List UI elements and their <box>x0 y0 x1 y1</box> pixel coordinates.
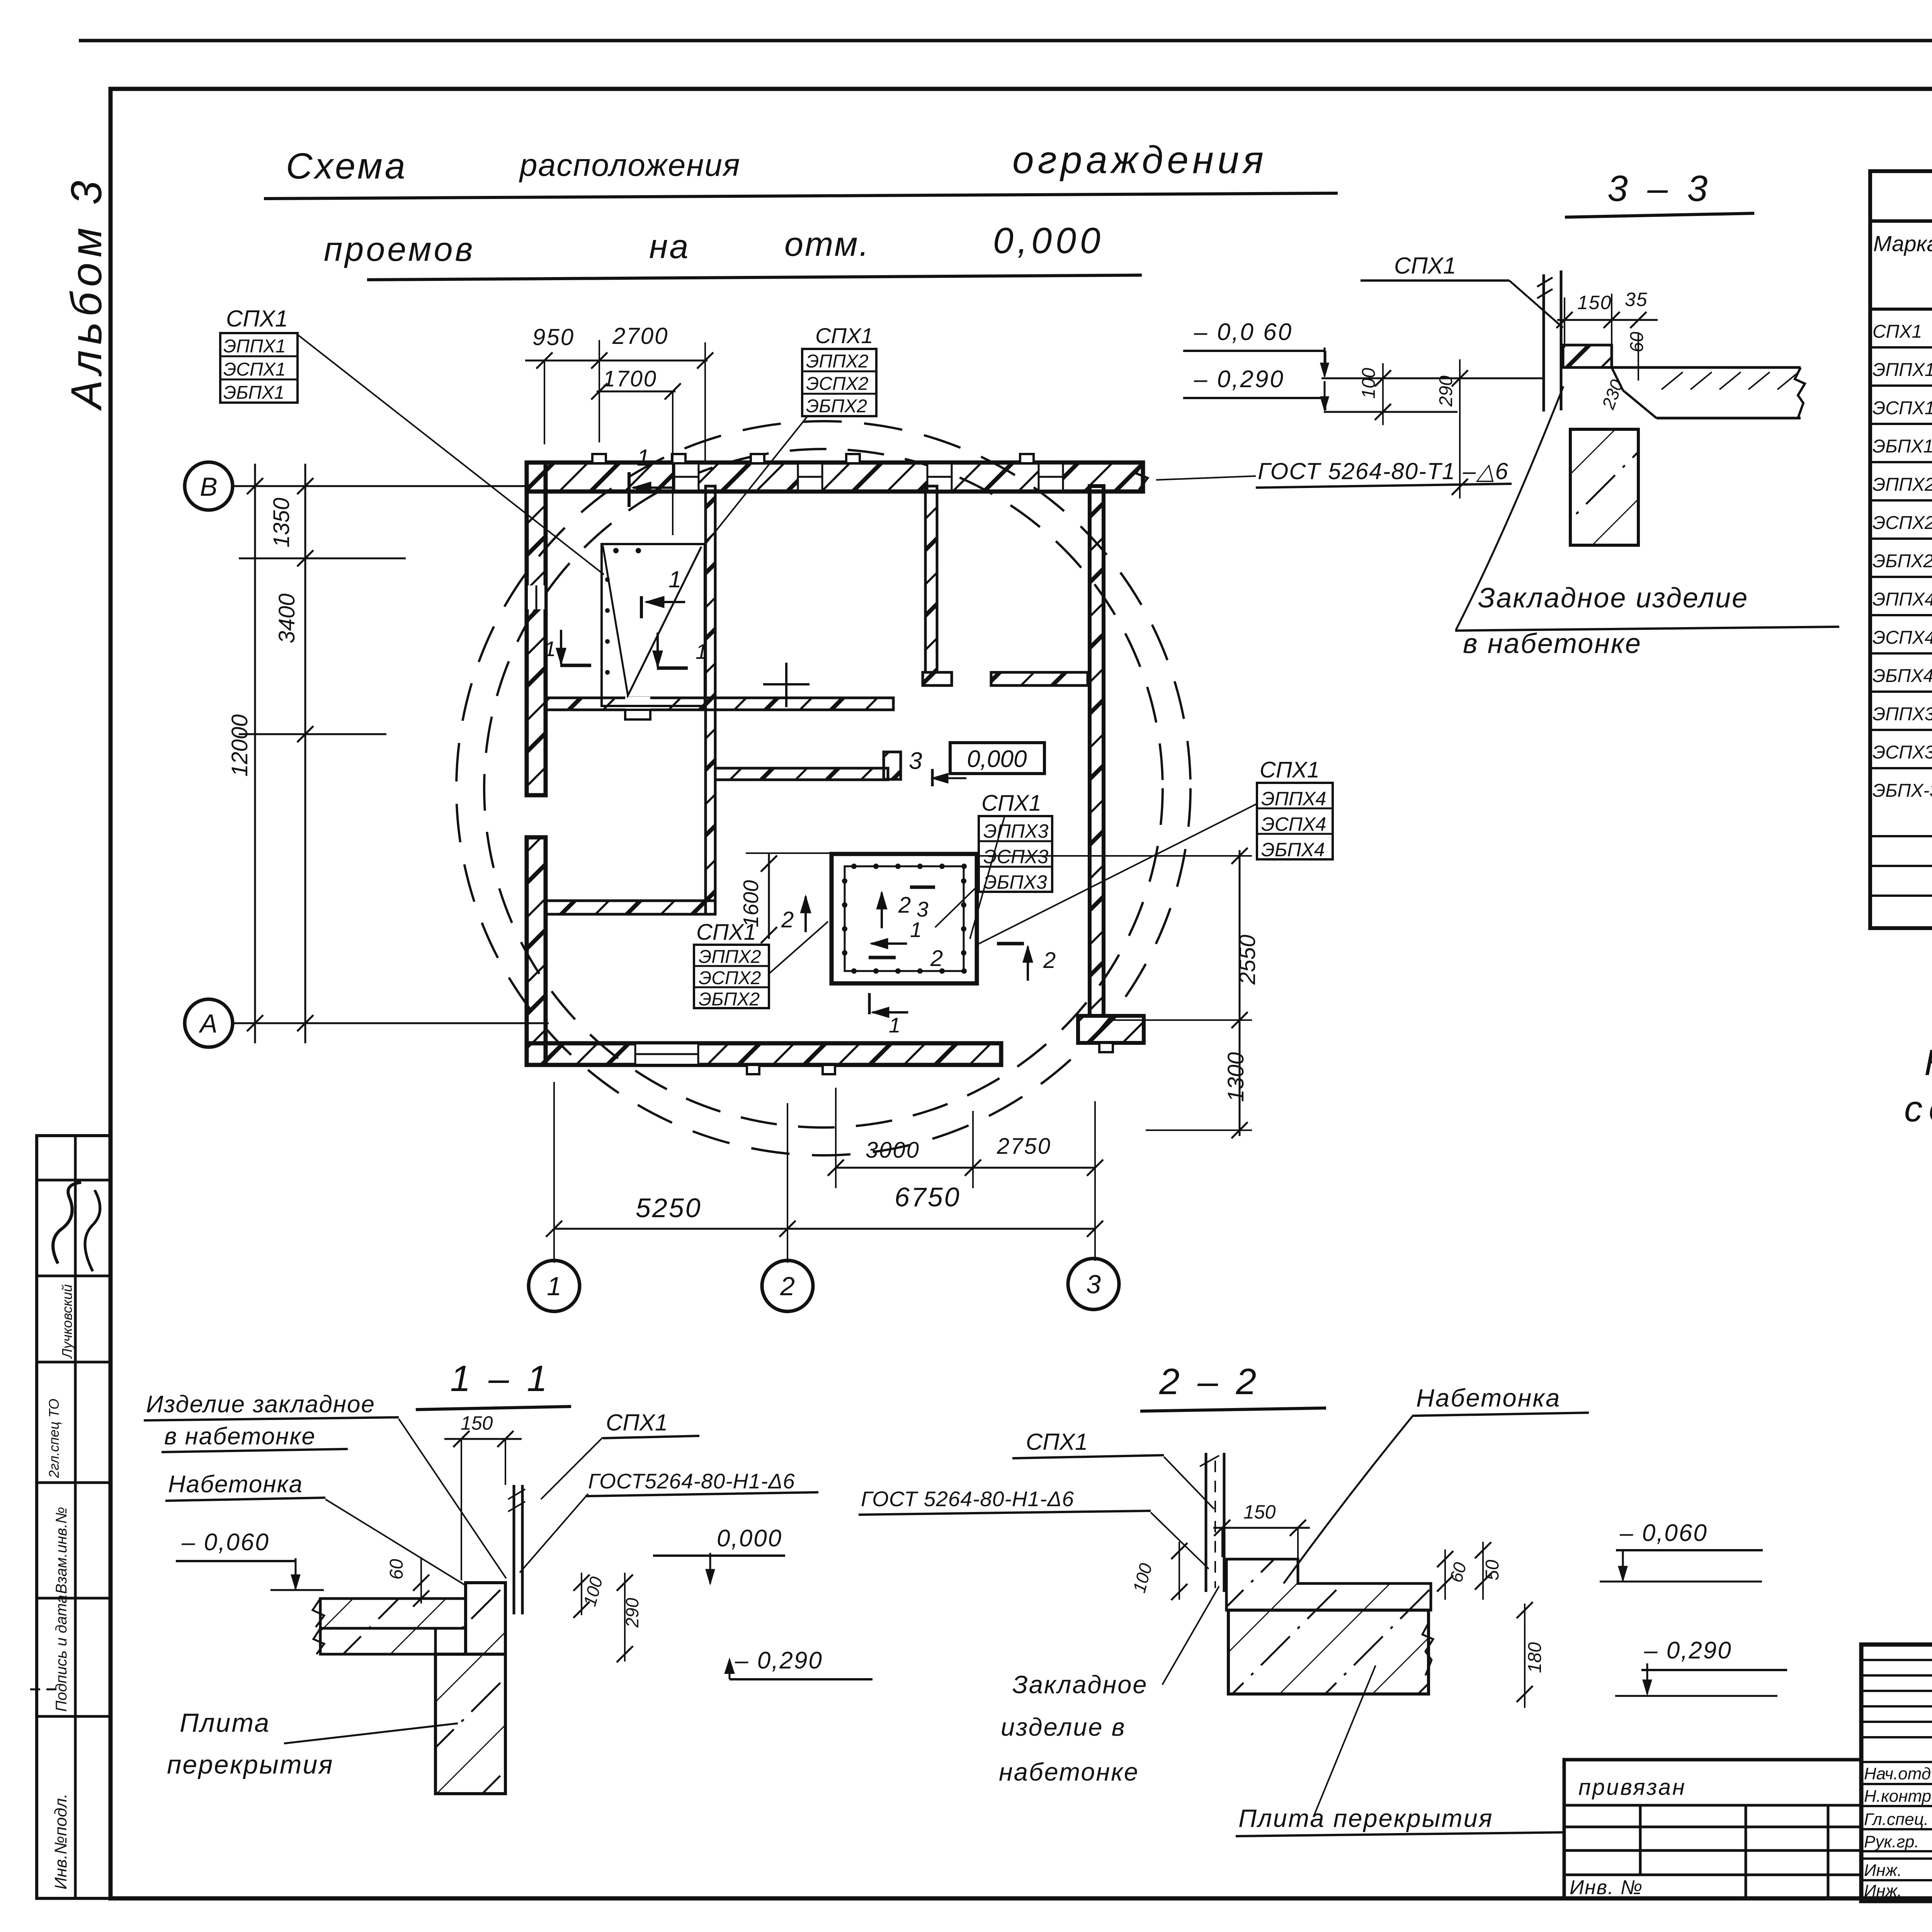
svg-text:– 0,290: – 0,290 <box>735 1647 823 1674</box>
svg-text:1: 1 <box>696 639 707 663</box>
svg-text:3400: 3400 <box>274 594 299 643</box>
svg-text:ЭСПХ1: ЭСПХ1 <box>223 359 286 380</box>
svg-text:ГОСТ5264-80-Н1-Δ6: ГОСТ5264-80-Н1-Δ6 <box>588 1469 795 1493</box>
svg-text:6750: 6750 <box>895 1182 961 1212</box>
svg-text:ЭБПХ3: ЭБПХ3 <box>983 871 1047 893</box>
svg-text:ЭППХ3: ЭППХ3 <box>983 820 1049 842</box>
svg-text:ГОСТ 5264-80-Т1 –△6: ГОСТ 5264-80-Т1 –△6 <box>1258 458 1509 484</box>
svg-text:3 – 3: 3 – 3 <box>1607 168 1712 209</box>
svg-text:Лучковский: Лучковский <box>59 1284 75 1359</box>
svg-text:на: на <box>649 227 690 265</box>
svg-text:2550: 2550 <box>1235 935 1260 985</box>
svg-text:СПХ1: СПХ1 <box>226 306 288 332</box>
svg-text:Изделие закладное: Изделие закладное <box>146 1391 375 1418</box>
svg-text:1: 1 <box>910 918 922 942</box>
svg-text:2700: 2700 <box>612 323 668 349</box>
svg-text:1: 1 <box>889 1013 901 1037</box>
svg-text:290: 290 <box>1436 376 1456 407</box>
svg-text:ЭППХ2: ЭППХ2 <box>1872 474 1932 495</box>
svg-text:совместно: совместно <box>1904 1088 1932 1129</box>
svg-text:ЭСПХ2: ЭСПХ2 <box>806 374 868 394</box>
svg-text:1600: 1600 <box>739 880 763 927</box>
svg-text:– 0,0 60: – 0,0 60 <box>1194 319 1293 345</box>
svg-text:1: 1 <box>637 445 650 471</box>
svg-text:– 0,290: – 0,290 <box>1194 366 1285 393</box>
svg-text:950: 950 <box>532 324 575 350</box>
svg-text:1: 1 <box>547 1272 561 1301</box>
svg-text:ЭБПХ4: ЭБПХ4 <box>1872 666 1932 686</box>
svg-text:2: 2 <box>780 1272 795 1301</box>
svg-text:150: 150 <box>1577 292 1612 313</box>
svg-text:ЭБПХ-3: ЭБПХ-3 <box>1872 781 1932 801</box>
svg-text:ГОСТ 5264-80-Н1-Δ6: ГОСТ 5264-80-Н1-Δ6 <box>861 1487 1074 1511</box>
svg-text:Закладное: Закладное <box>1012 1670 1148 1699</box>
svg-text:12000: 12000 <box>227 714 252 777</box>
svg-text:3: 3 <box>909 748 922 774</box>
svg-text:ЭППХ2: ЭППХ2 <box>806 351 869 372</box>
svg-text:2 – 2: 2 – 2 <box>1159 1361 1260 1402</box>
svg-text:150: 150 <box>1243 1501 1276 1523</box>
svg-text:СПХ1: СПХ1 <box>1260 757 1320 782</box>
svg-text:1 – 1: 1 – 1 <box>450 1358 551 1399</box>
svg-text:100: 100 <box>1359 368 1379 399</box>
svg-text:Плита перекрытия: Плита перекрытия <box>1238 1804 1493 1832</box>
svg-text:проемов: проемов <box>324 230 475 268</box>
svg-text:ЭСПХ1: ЭСПХ1 <box>1872 398 1932 418</box>
svg-text:180: 180 <box>1525 1642 1545 1673</box>
svg-text:2: 2 <box>930 946 943 971</box>
svg-text:3: 3 <box>1086 1270 1101 1299</box>
svg-text:СПХ1: СПХ1 <box>1394 253 1456 279</box>
svg-text:Подпись и дата: Подпись и дата <box>53 1595 70 1712</box>
svg-text:2: 2 <box>1043 948 1056 973</box>
svg-text:ЭБПХ2: ЭБПХ2 <box>1872 551 1932 571</box>
svg-text:1300: 1300 <box>1223 1052 1248 1102</box>
svg-text:5250: 5250 <box>636 1193 702 1223</box>
svg-text:Набетонка: Набетонка <box>1416 1384 1561 1412</box>
svg-text:Плита: Плита <box>180 1708 270 1738</box>
svg-text:Инж.: Инж. <box>1864 1881 1902 1900</box>
svg-text:Набетонка: Набетонка <box>168 1471 303 1498</box>
svg-text:ЭППХ4: ЭППХ4 <box>1872 589 1932 610</box>
svg-text:– 0,060: – 0,060 <box>1619 1520 1708 1546</box>
svg-text:СПХ1: СПХ1 <box>981 791 1041 816</box>
svg-text:1350: 1350 <box>269 498 294 548</box>
svg-text:Нач.отд: Нач.отд <box>1864 1764 1931 1783</box>
svg-text:ЭСПХ4: ЭСПХ4 <box>1261 813 1326 835</box>
svg-text:А: А <box>198 1009 217 1038</box>
svg-text:2: 2 <box>781 907 794 932</box>
svg-text:60: 60 <box>1627 332 1647 352</box>
svg-text:3000: 3000 <box>866 1138 920 1163</box>
svg-text:1700: 1700 <box>603 366 657 391</box>
svg-text:Инв.№подл.: Инв.№подл. <box>51 1793 70 1889</box>
svg-text:в набетонке: в набетонке <box>164 1423 316 1450</box>
svg-text:ЭППХ4: ЭППХ4 <box>1261 788 1326 810</box>
svg-text:Гл.спец.: Гл.спец. <box>1864 1810 1929 1829</box>
svg-text:2гл.спец ТО: 2гл.спец ТО <box>46 1399 62 1478</box>
svg-text:Рук.гр.: Рук.гр. <box>1864 1832 1919 1851</box>
svg-text:– 0,060: – 0,060 <box>181 1529 270 1556</box>
svg-text:привязан: привязан <box>1578 1775 1686 1800</box>
svg-text:перекрытия: перекрытия <box>167 1750 334 1779</box>
svg-text:ЭППХ2: ЭППХ2 <box>699 947 761 967</box>
svg-text:Альбом 3: Альбом 3 <box>62 175 111 411</box>
svg-text:0,000: 0,000 <box>993 220 1104 261</box>
svg-text:Схема: Схема <box>286 146 408 187</box>
svg-text:2750: 2750 <box>997 1134 1051 1159</box>
svg-text:0,000: 0,000 <box>967 746 1027 772</box>
svg-text:2: 2 <box>898 893 911 918</box>
svg-text:СПХ1: СПХ1 <box>815 323 873 348</box>
svg-text:35: 35 <box>1625 289 1648 310</box>
svg-text:ЭБПХ2: ЭБПХ2 <box>806 396 867 417</box>
svg-text:ЭБПХ2: ЭБПХ2 <box>699 989 760 1010</box>
svg-text:расположения: расположения <box>519 148 741 183</box>
svg-text:в набетонке: в набетонке <box>1463 628 1642 659</box>
svg-text:60: 60 <box>386 1559 407 1580</box>
svg-text:Инв. №: Инв. № <box>1570 1876 1643 1899</box>
svg-text:Закладное изделие: Закладное изделие <box>1478 583 1748 614</box>
svg-text:Настоящий: Настоящий <box>1924 1042 1932 1083</box>
svg-text:0,000: 0,000 <box>717 1525 782 1552</box>
svg-text:ЭППХ1: ЭППХ1 <box>1872 360 1932 380</box>
svg-text:СПХ1: СПХ1 <box>1026 1429 1088 1455</box>
svg-text:СПХ1: СПХ1 <box>606 1410 668 1435</box>
svg-text:ограждения: ограждения <box>1012 138 1267 182</box>
svg-text:Инж.: Инж. <box>1864 1861 1902 1880</box>
svg-text:ЭСПХ4: ЭСПХ4 <box>1872 628 1932 648</box>
svg-text:набетонке: набетонке <box>999 1758 1139 1786</box>
svg-text:1: 1 <box>544 637 556 661</box>
svg-text:ЭСПХ3: ЭСПХ3 <box>1872 742 1932 763</box>
svg-text:Н.контр: Н.контр <box>1864 1787 1931 1806</box>
svg-text:ЭСПХ2: ЭСПХ2 <box>699 968 761 988</box>
svg-text:ЭППХ3: ЭППХ3 <box>1872 704 1932 724</box>
svg-text:– 0,290: – 0,290 <box>1644 1637 1732 1664</box>
svg-text:Взам.инв.№: Взам.инв.№ <box>53 1507 70 1594</box>
svg-text:1: 1 <box>668 566 681 592</box>
svg-text:50: 50 <box>1482 1560 1503 1580</box>
svg-text:Марка: Марка <box>1873 231 1932 256</box>
svg-text:ЭБПХ1: ЭБПХ1 <box>1872 436 1932 457</box>
svg-text:В: В <box>200 472 217 502</box>
svg-text:ЭБПХ4: ЭБПХ4 <box>1261 839 1325 861</box>
svg-text:150: 150 <box>461 1412 493 1434</box>
svg-text:ЭБПХ1: ЭБПХ1 <box>223 383 284 403</box>
svg-text:ЭППХ1: ЭППХ1 <box>223 336 286 357</box>
svg-text:отм.: отм. <box>784 225 870 263</box>
svg-text:ЭСПХ2: ЭСПХ2 <box>1872 513 1932 533</box>
svg-text:изделие в: изделие в <box>1001 1713 1126 1741</box>
svg-text:СПХ1: СПХ1 <box>1872 321 1922 342</box>
